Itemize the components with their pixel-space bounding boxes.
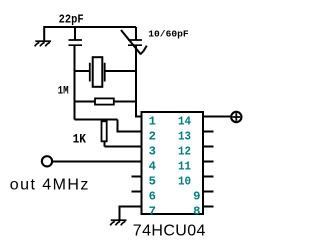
wire crystal left bbox=[75, 70, 91, 72]
svg-text:3: 3 bbox=[149, 144, 156, 158]
svg-text:74HCU04: 74HCU04 bbox=[133, 222, 206, 239]
svg-text:22pF: 22pF bbox=[59, 13, 84, 27]
wire 1K bottom to pin3 bbox=[105, 146, 142, 148]
svg-text:10/60pF: 10/60pF bbox=[148, 28, 189, 39]
svg-text:9: 9 bbox=[193, 189, 200, 203]
wire out to pin4 bbox=[53, 161, 142, 163]
svg-text:1M: 1M bbox=[58, 85, 69, 97]
wire 22pF drop bbox=[74, 27, 76, 40]
wire 1M right bbox=[114, 101, 136, 103]
crystal X1 bbox=[90, 63, 105, 82]
svg-text:1: 1 bbox=[149, 114, 156, 128]
svg-text:6: 6 bbox=[149, 189, 156, 203]
capacitor C2 trimmer 10/60pF bbox=[128, 40, 142, 45]
svg-text:7: 7 bbox=[149, 204, 156, 218]
resistor R2 1K bbox=[102, 121, 107, 141]
resistor R1 1M bbox=[95, 98, 114, 104]
resistor R2 1K leads bbox=[104, 120, 106, 147]
pin 10 stub bbox=[203, 176, 214, 178]
IC U1 74HCU04 body bbox=[142, 112, 204, 214]
pin 12 stub bbox=[203, 146, 214, 148]
wire trimmer drop bbox=[135, 27, 137, 40]
svg-text:2: 2 bbox=[149, 129, 156, 143]
pin 14 stub to power bbox=[203, 116, 230, 118]
pin 9 stub bbox=[203, 191, 214, 193]
ground top left bbox=[35, 41, 51, 46]
trimmer arrow bbox=[121, 30, 147, 54]
svg-text:14: 14 bbox=[178, 114, 191, 128]
power terminal + bbox=[231, 112, 241, 122]
pin 5 stub bbox=[132, 176, 142, 178]
wire crystal right bbox=[105, 70, 136, 72]
svg-text:13: 13 bbox=[178, 129, 191, 143]
terminal out bbox=[42, 156, 52, 166]
wire pin7 to ground bbox=[120, 207, 142, 221]
svg-text:11: 11 bbox=[178, 159, 191, 173]
wire top rail bbox=[44, 27, 136, 41]
svg-text:10: 10 bbox=[178, 174, 191, 188]
pin 13 stub bbox=[203, 131, 214, 133]
wire left rail bbox=[74, 45, 76, 119]
svg-text:5: 5 bbox=[149, 174, 156, 188]
wire right rail bbox=[136, 45, 142, 116]
wire 1M left bbox=[75, 101, 96, 103]
capacitor C1 22pF bbox=[69, 40, 83, 45]
svg-text:out 4MHz: out 4MHz bbox=[10, 176, 90, 193]
pin 11 stub bbox=[203, 161, 214, 163]
svg-text:1K: 1K bbox=[73, 133, 87, 147]
svg-text:8: 8 bbox=[193, 204, 200, 218]
pin 6 stub bbox=[132, 191, 142, 193]
wire 1K top bbox=[75, 120, 142, 132]
svg-text:4: 4 bbox=[149, 159, 156, 173]
pin 8 stub bbox=[203, 206, 214, 208]
ground bottom bbox=[110, 220, 126, 225]
svg-text:12: 12 bbox=[178, 144, 191, 158]
